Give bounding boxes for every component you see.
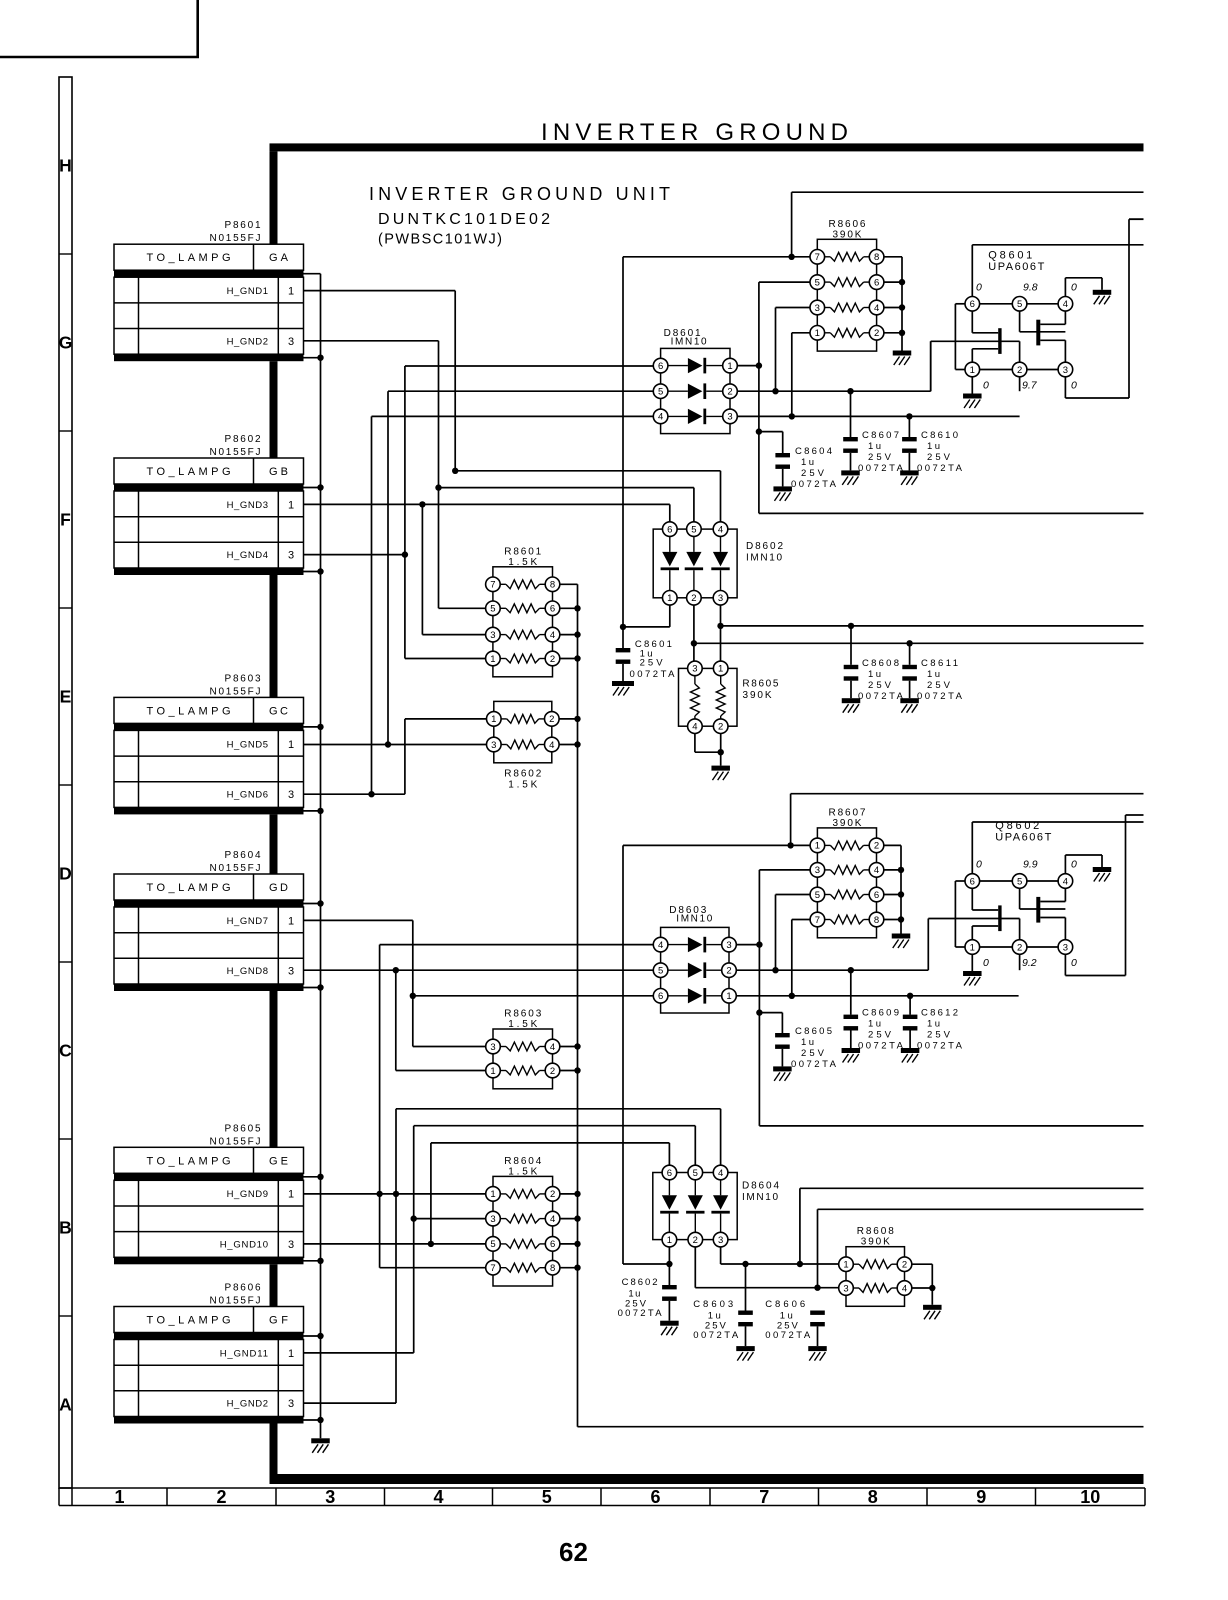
svg-text:P8606: P8606 [225,1283,261,1294]
svg-text:0072TA: 0072TA [917,1041,963,1052]
svg-text:TO_LAMPG: TO_LAMPG [147,252,231,264]
svg-text:25V: 25V [927,1030,951,1041]
svg-text:3: 3 [1063,365,1068,376]
svg-text:C8611: C8611 [921,658,958,669]
svg-text:3: 3 [843,1283,848,1294]
svg-text:R8605: R8605 [742,679,778,690]
svg-text:1: 1 [970,942,975,953]
svg-text:0: 0 [1071,380,1077,392]
svg-text:3: 3 [288,336,294,348]
svg-text:2: 2 [549,714,554,725]
svg-text:1: 1 [667,593,672,604]
svg-text:5: 5 [490,604,495,615]
svg-text:1: 1 [490,1066,495,1077]
svg-text:3: 3 [288,550,294,562]
svg-text:0072TA: 0072TA [693,1330,739,1341]
svg-text:3: 3 [815,865,820,876]
svg-text:D8602: D8602 [746,541,783,552]
svg-text:1: 1 [288,1189,294,1201]
svg-text:5: 5 [815,890,820,901]
svg-text:R8606: R8606 [828,219,865,230]
svg-text:0: 0 [1071,281,1077,293]
svg-text:R8607: R8607 [828,807,865,818]
svg-text:390K: 390K [832,229,861,240]
svg-text:3: 3 [718,1235,723,1246]
svg-text:10: 10 [1080,1487,1100,1507]
svg-text:3: 3 [718,593,723,604]
svg-text:TO_LAMPG: TO_LAMPG [147,466,231,478]
svg-text:6: 6 [667,524,672,535]
svg-text:25V: 25V [801,468,825,479]
svg-text:P8602: P8602 [225,434,261,445]
svg-text:0: 0 [983,957,989,969]
svg-text:F: F [60,510,71,530]
svg-text:R8603: R8603 [504,1009,541,1020]
svg-text:C8604: C8604 [795,446,832,457]
svg-text:0072TA: 0072TA [858,1041,904,1052]
svg-text:H_GND7: H_GND7 [227,916,268,927]
svg-text:6: 6 [650,1487,660,1507]
svg-text:TO_LAMPG: TO_LAMPG [147,1155,231,1167]
svg-text:4: 4 [718,1168,723,1179]
svg-text:INVERTER GROUND UNIT: INVERTER GROUND UNIT [369,184,670,204]
svg-text:B: B [59,1218,72,1238]
svg-text:C8603: C8603 [693,1299,733,1310]
svg-text:P8601: P8601 [225,220,261,231]
svg-text:IMN10: IMN10 [676,914,712,925]
svg-text:1: 1 [843,1260,848,1271]
svg-text:4: 4 [1063,299,1068,310]
svg-text:1: 1 [727,361,732,372]
svg-text:D: D [59,864,72,884]
svg-text:0072TA: 0072TA [791,1059,837,1070]
svg-text:6: 6 [550,1239,555,1250]
svg-text:4: 4 [692,722,697,733]
svg-text:6: 6 [658,361,663,372]
svg-text:H_GND1: H_GND1 [227,286,268,297]
svg-text:R8608: R8608 [857,1226,894,1237]
svg-text:25V: 25V [640,658,664,669]
svg-text:4: 4 [550,630,555,641]
svg-text:3: 3 [490,1214,495,1225]
svg-text:25V: 25V [868,1030,892,1041]
svg-text:2: 2 [1017,365,1022,376]
svg-text:6: 6 [970,299,975,310]
svg-text:C8605: C8605 [795,1026,832,1037]
svg-text:H_GND6: H_GND6 [227,790,268,801]
svg-text:0072TA: 0072TA [917,463,963,474]
svg-text:6: 6 [667,1168,672,1179]
svg-text:2: 2 [902,1260,907,1271]
svg-text:0: 0 [983,380,989,392]
svg-text:1: 1 [726,991,731,1002]
svg-text:H_GND5: H_GND5 [227,739,268,750]
svg-text:3: 3 [490,630,495,641]
svg-text:9.2: 9.2 [1022,957,1037,969]
svg-text:C8609: C8609 [862,1008,899,1019]
svg-text:0072TA: 0072TA [765,1330,811,1341]
svg-text:2: 2 [216,1487,226,1507]
svg-text:4: 4 [874,865,879,876]
svg-text:TO_LAMPG: TO_LAMPG [147,1315,231,1327]
svg-text:9.9: 9.9 [1023,859,1038,871]
svg-text:25V: 25V [927,680,951,691]
svg-text:62: 62 [559,1537,588,1567]
svg-text:1: 1 [491,714,496,725]
svg-text:6: 6 [874,890,879,901]
svg-text:5: 5 [693,1168,698,1179]
svg-text:9.8: 9.8 [1023,281,1038,293]
svg-text:6: 6 [550,604,555,615]
svg-text:(PWBSC101WJ): (PWBSC101WJ) [378,232,502,248]
svg-text:0072TA: 0072TA [858,463,904,474]
svg-text:C8606: C8606 [765,1299,805,1310]
svg-text:1: 1 [288,286,294,298]
svg-text:25V: 25V [927,452,951,463]
svg-text:R8604: R8604 [504,1156,541,1167]
svg-text:7: 7 [490,580,495,591]
svg-text:1.5K: 1.5K [508,780,537,791]
svg-text:1: 1 [114,1487,124,1507]
svg-text:E: E [60,687,72,707]
svg-text:2: 2 [874,841,879,852]
svg-text:H_GND11: H_GND11 [220,1348,268,1359]
svg-text:3: 3 [815,303,820,314]
svg-text:390K: 390K [832,818,861,829]
svg-text:D8604: D8604 [742,1181,779,1192]
svg-text:5: 5 [1017,299,1022,310]
svg-text:2: 2 [727,387,732,398]
svg-text:4: 4 [1063,876,1068,887]
svg-text:0: 0 [976,281,982,293]
svg-text:2: 2 [874,328,879,339]
svg-text:5: 5 [658,966,663,977]
svg-text:2: 2 [1017,942,1022,953]
svg-text:3: 3 [490,1042,495,1053]
svg-text:9.7: 9.7 [1022,380,1038,392]
svg-text:7: 7 [490,1263,495,1274]
svg-text:3: 3 [288,966,294,978]
svg-text:H_GND4: H_GND4 [227,550,268,561]
svg-text:6: 6 [658,991,663,1002]
svg-text:1: 1 [288,1348,294,1360]
svg-text:1: 1 [815,841,820,852]
svg-text:4: 4 [902,1283,907,1294]
svg-text:1: 1 [667,1235,672,1246]
svg-text:H_GND10: H_GND10 [220,1239,268,1250]
svg-text:C: C [59,1041,72,1061]
svg-text:0: 0 [976,859,982,871]
svg-text:5: 5 [658,387,663,398]
svg-text:6: 6 [874,277,879,288]
svg-text:4: 4 [433,1487,443,1507]
svg-text:Q8602: Q8602 [995,820,1039,832]
svg-text:7: 7 [759,1487,769,1507]
svg-text:4: 4 [874,303,879,314]
svg-text:3: 3 [325,1487,335,1507]
svg-text:2: 2 [550,654,555,665]
svg-text:25V: 25V [801,1048,825,1059]
svg-text:3: 3 [288,1398,294,1410]
svg-text:1.5K: 1.5K [508,1019,537,1030]
svg-text:1: 1 [288,739,294,751]
svg-text:H_GND9: H_GND9 [227,1189,268,1200]
svg-text:TO_LAMPG: TO_LAMPG [147,882,231,894]
svg-text:H: H [59,156,72,176]
svg-text:1: 1 [815,328,820,339]
svg-text:2: 2 [726,966,731,977]
svg-text:R8602: R8602 [504,769,541,780]
svg-text:P8603: P8603 [225,673,261,684]
svg-text:5: 5 [1017,876,1022,887]
svg-text:2: 2 [718,722,723,733]
svg-text:A: A [59,1395,72,1415]
svg-text:5: 5 [815,277,820,288]
svg-text:4: 4 [658,412,663,423]
svg-text:0072TA: 0072TA [858,691,904,702]
svg-text:8: 8 [874,252,879,263]
svg-text:0072TA: 0072TA [618,1308,663,1319]
svg-text:1: 1 [970,365,975,376]
svg-text:7: 7 [815,915,820,926]
svg-text:4: 4 [718,524,723,535]
svg-text:0072TA: 0072TA [630,669,676,680]
svg-text:8: 8 [550,1263,555,1274]
svg-text:7: 7 [815,252,820,263]
svg-text:2: 2 [550,1066,555,1077]
svg-text:1: 1 [288,915,294,927]
svg-text:9: 9 [976,1487,986,1507]
svg-text:3: 3 [727,412,732,423]
svg-text:P8604: P8604 [225,850,261,861]
svg-text:1: 1 [718,664,723,675]
svg-text:0: 0 [1071,957,1077,969]
svg-text:Q8601: Q8601 [988,250,1032,262]
svg-text:H_GND3: H_GND3 [227,500,268,511]
svg-text:390K: 390K [743,690,772,701]
svg-text:5: 5 [490,1239,495,1250]
svg-text:G: G [59,333,73,353]
svg-text:1.5K: 1.5K [508,557,537,568]
svg-text:3: 3 [726,940,731,951]
svg-text:C8602: C8602 [622,1277,658,1288]
svg-text:4: 4 [550,1214,555,1225]
svg-text:1: 1 [490,654,495,665]
svg-text:390K: 390K [861,1237,890,1248]
svg-text:C8612: C8612 [921,1008,958,1019]
svg-text:8: 8 [874,915,879,926]
svg-text:4: 4 [549,740,554,751]
svg-text:C8607: C8607 [862,430,899,441]
svg-text:4: 4 [550,1042,555,1053]
svg-text:DUNTKC101DE02: DUNTKC101DE02 [378,211,550,228]
svg-text:0072TA: 0072TA [791,479,837,490]
svg-text:6: 6 [970,876,975,887]
svg-text:H_GND8: H_GND8 [227,966,268,977]
svg-text:IMN10: IMN10 [746,553,782,564]
svg-text:2: 2 [691,593,696,604]
svg-text:2: 2 [550,1189,555,1200]
svg-text:5: 5 [691,524,696,535]
svg-text:1: 1 [288,499,294,511]
svg-text:H_GND2: H_GND2 [227,336,268,347]
svg-text:2: 2 [693,1235,698,1246]
svg-text:INVERTER GROUND: INVERTER GROUND [541,119,848,146]
svg-text:4: 4 [658,940,663,951]
svg-text:TO_LAMPG: TO_LAMPG [147,705,231,717]
svg-text:3: 3 [288,789,294,801]
svg-text:R8601: R8601 [504,546,541,557]
svg-text:H_GND2: H_GND2 [227,1399,268,1410]
svg-text:3: 3 [491,740,496,751]
svg-text:8: 8 [550,580,555,591]
svg-text:IMN10: IMN10 [671,337,707,348]
svg-text:25V: 25V [868,452,892,463]
svg-text:5: 5 [542,1487,552,1507]
svg-text:P8605: P8605 [225,1123,261,1134]
svg-text:1.5K: 1.5K [508,1166,537,1177]
svg-text:8: 8 [868,1487,878,1507]
svg-text:25V: 25V [868,680,892,691]
svg-text:0: 0 [1071,859,1077,871]
svg-text:1: 1 [490,1189,495,1200]
svg-text:0072TA: 0072TA [917,691,963,702]
svg-text:C8610: C8610 [921,430,958,441]
svg-text:3: 3 [288,1239,294,1251]
svg-text:IMN10: IMN10 [742,1192,778,1203]
svg-text:3: 3 [692,664,697,675]
svg-text:C8608: C8608 [862,658,899,669]
svg-text:3: 3 [1063,942,1068,953]
